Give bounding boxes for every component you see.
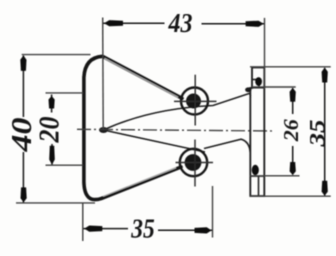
side view bottom wire section (black)	[252, 165, 259, 175]
dim 40 arrow bottom	[21, 187, 27, 202]
dim 35 bottom arrow left	[84, 226, 102, 232]
dim 20 arrow bottom	[49, 146, 55, 165]
dim 40 extension top	[22, 54, 91, 56]
wire/flange junction blob	[245, 87, 251, 92]
dim 35 right arrow bottom	[322, 181, 328, 196]
upper loop crosshair horizontal	[174, 100, 217, 102]
lower loop filled center	[185, 154, 202, 171]
svg-text:20: 20	[35, 117, 66, 144]
lower loop crosshair vertical	[194, 140, 196, 187]
lower loop crosshair horizontal	[176, 162, 214, 164]
dim 26 line stubs	[292, 88, 294, 175]
dim 35 right arrow top	[322, 68, 328, 83]
dim 35 bottom extension left	[82, 203, 84, 241]
side view inner line at wire top	[250, 87, 264, 89]
dim 26 extension bottom	[250, 175, 300, 177]
dim 43 extension line right	[264, 18, 266, 89]
dim 26 arrow bottom	[290, 162, 296, 175]
dim 43 line right segment	[202, 23, 265, 25]
wire arm lower thin line (vertex to lower loop)	[104, 130, 206, 152]
dim 35 bottom extension right	[212, 186, 214, 238]
dim 20 extension top	[46, 92, 84, 94]
dim 26 arrow top	[290, 88, 296, 102]
dim 35 right line	[324, 68, 326, 196]
dim 26 extension top	[252, 86, 296, 88]
dim 43 arrow right	[246, 21, 264, 27]
side view bottom hook line	[258, 176, 260, 196]
svg-text:40: 40	[7, 118, 38, 153]
svg-text:43: 43	[168, 8, 193, 38]
upper loop crosshair vertical	[194, 75, 196, 126]
lower loop outer circle	[180, 149, 207, 176]
dim 40 extension bottom	[16, 202, 95, 204]
dim 35 bottom line	[84, 229, 213, 231]
wire arm lower thin line (lower loop to side view)	[204, 139, 250, 152]
svg-text:35: 35	[304, 120, 329, 148]
dim 35 right extension top	[250, 66, 331, 68]
side view outer outline	[250, 68, 264, 197]
dim 20 extension bottom	[46, 164, 84, 166]
svg-text:26: 26	[279, 119, 303, 142]
dim 35 right extension bottom	[250, 195, 331, 197]
vertex ink blob	[99, 127, 108, 133]
centerline (dash-dot)	[77, 129, 273, 131]
dim 35 bottom arrow right	[195, 227, 212, 233]
side view inner line at wire bottom	[250, 175, 264, 177]
dim 40 arrow top	[20, 55, 26, 71]
dim 43 extension line left	[102, 18, 105, 130]
side view top hook step	[252, 80, 259, 89]
svg-text:35: 35	[130, 214, 154, 244]
dim 20 line stubs	[51, 95, 53, 165]
side view top wire section (black)	[255, 77, 262, 86]
clip band outline (front view, thick wire)	[84, 56, 182, 199]
dim 43 line left segment	[103, 22, 164, 24]
dim 40 line	[22, 56, 24, 203]
upper loop outer circle	[181, 88, 208, 115]
dim 20 arrow top	[49, 96, 55, 109]
dim 43 arrow left	[104, 20, 123, 26]
upper loop filled center	[186, 94, 201, 109]
wire arm upper thin line (vertex to side view)	[104, 94, 251, 130]
